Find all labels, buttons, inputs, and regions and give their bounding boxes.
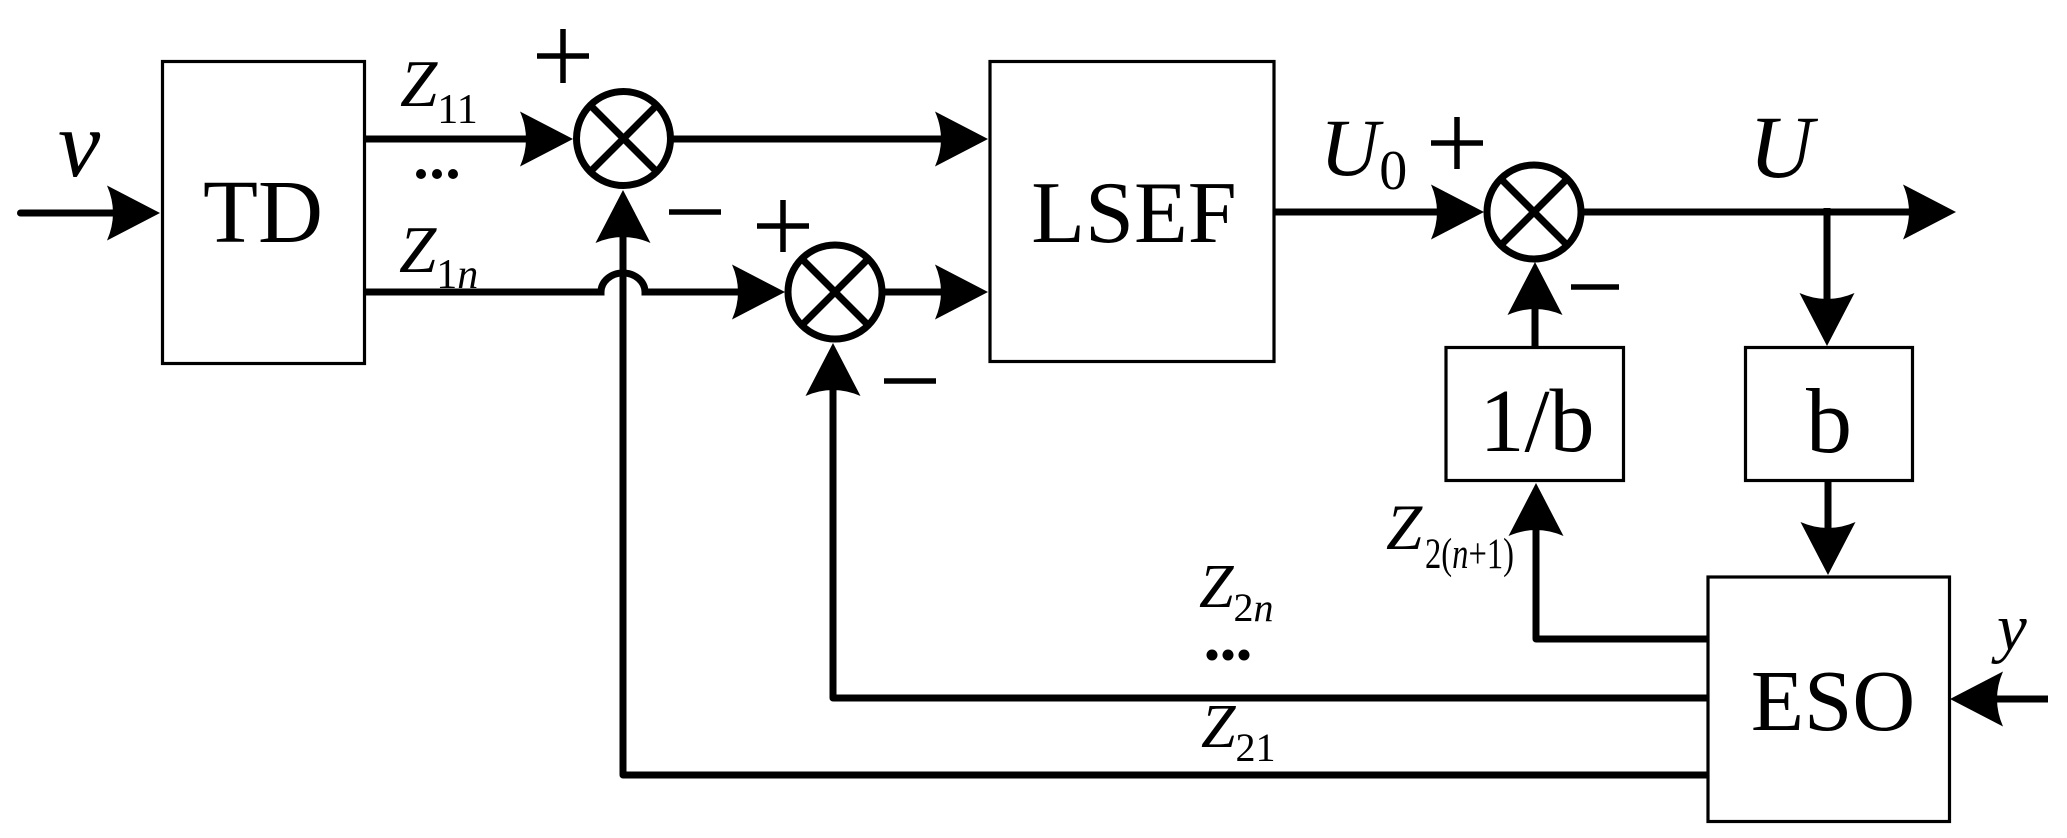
wire sum2 to LSEF: [882, 289, 950, 296]
arrow into sum1 bottom: [596, 190, 651, 243]
minus sign at sum1: [669, 209, 721, 215]
summing junction sum3: [1487, 165, 1581, 259]
summing junction sum2: [788, 245, 882, 339]
wire ESO to sum2 (Z2 feedback): [833, 370, 1708, 698]
svg-text:Z2n: Z2n: [1199, 553, 1273, 630]
svg-text:ESO: ESO: [1751, 652, 1915, 749]
svg-text:b: b: [1806, 370, 1852, 472]
block 1/b: [1446, 348, 1624, 481]
block ESO: [1708, 577, 1950, 822]
wire: v input: [21, 210, 131, 217]
plus sign at sum2: [757, 200, 809, 252]
svg-text:U0: U0: [1320, 102, 1407, 202]
wire b to ESO: [1825, 481, 1832, 530]
wire 1/b to sum3: [1532, 290, 1539, 346]
arrow into sum2: [732, 265, 785, 320]
block b: [1746, 348, 1913, 481]
summing junction sum1: [577, 92, 671, 186]
arrow into LSEF bottom: [935, 265, 988, 320]
plus sign at sum1: [537, 29, 589, 83]
arrow into TD: [107, 186, 160, 241]
minus sign at sum2: [884, 378, 936, 384]
block TD: [163, 62, 365, 364]
dots between Z2n and Z21: [1207, 650, 1250, 661]
wire ESO to sum1 (Z21 feedback): [623, 220, 1708, 775]
svg-text:Z11: Z11: [400, 47, 478, 133]
svg-text:2(n+1): 2(n+1): [1425, 531, 1514, 578]
arrow into b: [1800, 293, 1855, 346]
arrow into LSEF top: [935, 112, 988, 167]
wire TD to sum2 with hop over vertical: [366, 273, 740, 292]
arrow output U: [1903, 185, 1956, 240]
svg-text:Z1n: Z1n: [399, 213, 478, 298]
svg-text:LSEF: LSEF: [1031, 165, 1236, 262]
wire U branch down to b: [1824, 208, 1831, 300]
wire TD to sum1: [366, 136, 537, 143]
svg-text:U: U: [1749, 99, 1819, 197]
arrow into sum3: [1431, 185, 1484, 240]
wire sum3 to output: [1582, 209, 1922, 216]
wire ESO to 1/b (Z2(n+1) feedback): [1536, 500, 1708, 639]
arrow into sum3 bottom: [1508, 262, 1563, 315]
svg-text:Z: Z: [1386, 492, 1423, 564]
block LSEF: [990, 62, 1274, 362]
wire sum1 to LSEF: [671, 136, 950, 143]
wire y input: [1980, 696, 2048, 703]
svg-text:y: y: [1991, 591, 2027, 665]
arrow into ESO right: [1950, 672, 2003, 727]
svg-text:v: v: [58, 91, 101, 197]
svg-text:1/b: 1/b: [1479, 372, 1594, 471]
dots between Z11 and Z1n: [416, 169, 458, 179]
wire LSEF to sum3: [1274, 209, 1448, 216]
arrow into sum2 bottom: [806, 343, 861, 396]
minus sign at sum3: [1571, 284, 1619, 290]
arrow into 1/b bottom: [1509, 483, 1564, 536]
arrow into sum1: [520, 112, 573, 167]
svg-text:TD: TD: [203, 163, 323, 262]
arrow into ESO top: [1801, 522, 1856, 575]
plus sign at sum3: [1431, 117, 1483, 169]
svg-text:Z21: Z21: [1201, 693, 1275, 770]
